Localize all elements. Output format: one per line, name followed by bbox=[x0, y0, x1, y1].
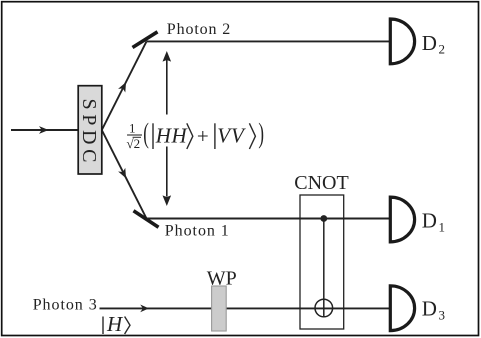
arrowhead on bottom diagonal beam bbox=[118, 168, 126, 178]
control dot bbox=[320, 215, 327, 222]
ket bar 1 bbox=[152, 123, 154, 149]
rangle 1 bbox=[187, 123, 193, 149]
CNOT box bbox=[300, 195, 344, 329]
svg-text:Photon 3: Photon 3 bbox=[33, 296, 97, 313]
svg-text:D: D bbox=[422, 297, 437, 321]
SPDC crystal box bbox=[78, 86, 102, 174]
arrowhead down bbox=[163, 195, 172, 206]
svg-text:SPDC: SPDC bbox=[78, 99, 100, 163]
ket bar 2 bbox=[214, 123, 216, 149]
svg-text:3: 3 bbox=[439, 307, 446, 322]
svg-text:+: + bbox=[197, 124, 209, 148]
target XOR circle bbox=[315, 299, 333, 317]
WP waveplate bbox=[212, 286, 227, 331]
svg-text:HH: HH bbox=[155, 124, 189, 148]
svg-text:WP: WP bbox=[207, 268, 237, 290]
svg-text:1: 1 bbox=[439, 219, 446, 234]
svg-text:VV: VV bbox=[217, 124, 246, 148]
arrowhead up bbox=[163, 51, 172, 62]
wire: Photon 2 beam to D2 bbox=[147, 40, 391, 42]
ket |H> input state: bar bbox=[102, 317, 104, 335]
detector D2 bbox=[390, 19, 414, 64]
svg-text:2: 2 bbox=[439, 42, 446, 57]
svg-text:Photon 2: Photon 2 bbox=[167, 21, 231, 38]
fraction bar bbox=[127, 134, 142, 136]
detector D3 bbox=[390, 286, 414, 331]
wire: pump input into SPDC bbox=[11, 129, 79, 131]
svg-text:(: ( bbox=[143, 118, 149, 150]
svg-text:H: H bbox=[106, 312, 124, 336]
svg-text:D: D bbox=[422, 31, 437, 55]
entanglement double arrow (upper segment) bbox=[166, 60, 168, 115]
svg-text:CNOT: CNOT bbox=[294, 172, 348, 194]
wire: Photon 3 beam to D3 bbox=[100, 307, 391, 309]
rangle of ket bbox=[125, 317, 130, 335]
mirror M2 (top) bbox=[133, 32, 158, 48]
svg-text:Photon 1: Photon 1 bbox=[165, 222, 229, 239]
radical overline bbox=[133, 136, 141, 138]
svg-text:1: 1 bbox=[129, 121, 136, 136]
wire: diagonal beam SPDC to bottom mirror bbox=[102, 130, 147, 219]
arrowhead on top diagonal beam bbox=[118, 82, 126, 92]
mirror M1 (bottom) bbox=[134, 211, 159, 227]
rangle 2 bbox=[249, 123, 255, 149]
entanglement double arrow (lower segment) bbox=[166, 147, 168, 197]
arrowhead on pump input bbox=[39, 126, 49, 134]
wire: diagonal beam SPDC to top mirror bbox=[102, 41, 147, 130]
svg-text:): ) bbox=[258, 118, 264, 150]
wire: Photon 1 beam to D1 bbox=[147, 218, 391, 220]
arrowhead on photon 3 beam bbox=[140, 305, 149, 313]
wire: control line bbox=[323, 219, 325, 317]
detector D1 bbox=[390, 197, 414, 242]
svg-text:D: D bbox=[422, 209, 437, 233]
svg-text:√2: √2 bbox=[127, 136, 141, 151]
